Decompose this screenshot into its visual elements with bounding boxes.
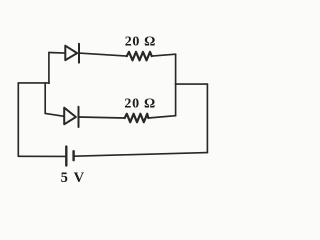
diode (top branch) xyxy=(65,44,79,63)
wire: bottom left horizontal xyxy=(18,155,65,157)
wire: bottom branch, corner to diode xyxy=(45,113,64,116)
wire: outer left vertical xyxy=(17,83,19,156)
wire: left connector horizontal xyxy=(18,82,49,84)
wire: right connector horizontal xyxy=(176,83,208,85)
resistor 20 Ω (top branch) xyxy=(127,52,152,60)
svg-text:20 Ω: 20 Ω xyxy=(124,97,155,112)
battery 5 V: short plate xyxy=(72,151,74,160)
battery 5 V: long plate xyxy=(65,147,67,166)
wire: bottom right horizontal xyxy=(75,153,208,157)
wire: outer right vertical xyxy=(206,84,208,153)
wire: bottom branch, diode to resistor xyxy=(79,117,125,118)
wire: inner right vertical xyxy=(175,54,177,115)
wire: bottom branch, resistor to corner xyxy=(148,116,175,118)
wire: inner left upper vertical xyxy=(48,53,50,84)
wire: top branch, diode to resistor xyxy=(79,53,127,56)
diode (bottom branch) xyxy=(64,107,78,127)
resistor 20 Ω (bottom branch) xyxy=(125,114,149,122)
wire: top branch, resistor to corner xyxy=(152,54,176,56)
svg-text:5 V: 5 V xyxy=(61,170,85,186)
wire: top branch, corner to diode xyxy=(49,52,65,55)
wire: inner left lower vertical xyxy=(44,83,46,114)
svg-text:20 Ω: 20 Ω xyxy=(125,35,156,50)
